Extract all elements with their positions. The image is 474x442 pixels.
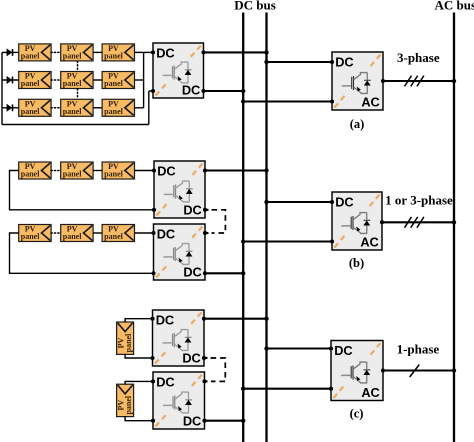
wire stub converter A1 minus input xyxy=(149,90,153,92)
junction inverter B plus xyxy=(264,200,268,204)
svg-text:DC: DC xyxy=(334,343,352,358)
svg-text:DC: DC xyxy=(156,46,174,61)
wire array negative bottom return xyxy=(2,124,149,126)
junction inverter A minus xyxy=(241,99,245,103)
wire DC bus to inverter B plus input xyxy=(267,201,333,203)
wire DC bus to inverter A minus input xyxy=(243,100,332,102)
DC-AC inverter B xyxy=(330,192,384,250)
junction inverter C on AC bus xyxy=(452,368,456,372)
svg-text:DC: DC xyxy=(157,227,175,242)
PV panel b string1 col3 xyxy=(102,162,134,179)
single-phase slash C xyxy=(410,365,420,378)
wire inverter C output to AC bus xyxy=(383,369,454,371)
junction A1 plus on DC bus xyxy=(264,50,268,54)
PV panel b string2 col3 xyxy=(102,225,134,242)
wire row3 left lead xyxy=(2,107,19,109)
wire array negative left drop xyxy=(1,52,3,124)
PV panel c1 xyxy=(117,322,134,354)
three-phase slashes A xyxy=(405,76,424,87)
junction inverter B minus xyxy=(241,239,245,243)
junction inverter C minus xyxy=(241,387,245,391)
svg-text:DC: DC xyxy=(183,413,201,428)
stub C1 output minus xyxy=(204,357,208,359)
svg-text:DC bus: DC bus xyxy=(234,0,276,13)
wire c2 panel plus to converter C2 xyxy=(125,381,153,384)
wire c2 panel minus to converter C2 xyxy=(125,416,153,420)
wire B1 output plus to DC bus xyxy=(205,169,267,171)
wire DC bus to inverter B minus input xyxy=(243,240,332,242)
junction inverter B on AC bus xyxy=(452,220,456,224)
PV panel b string2 col1 xyxy=(19,225,51,242)
PV panel b string1 col1 xyxy=(19,162,51,179)
PV panel a row3 col2 xyxy=(61,99,93,116)
wire c1 panel plus to converter C1 xyxy=(125,319,152,323)
wire A1 output plus to DC bus xyxy=(204,51,267,53)
svg-text:(a): (a) xyxy=(350,117,365,131)
dotted column link rows1-2 xyxy=(77,61,79,71)
dotted series link row2 xyxy=(51,79,61,81)
stub C2 output plus xyxy=(205,380,208,382)
PV panel b string1 col2 xyxy=(61,162,93,179)
PV panel a row2 col1 xyxy=(19,72,51,89)
dashed series link C1-C2 xyxy=(211,358,226,381)
dashed series link B1-B2 xyxy=(212,210,226,233)
wire string collector riser xyxy=(143,52,145,107)
wire b string2 return loop to B2 minus xyxy=(10,233,154,273)
svg-text:AC bus: AC bus xyxy=(435,0,474,13)
wire b string1 return loop to B1 minus xyxy=(10,171,155,210)
DC-AC inverter A xyxy=(330,52,385,110)
blocking diode row3 xyxy=(7,104,13,112)
stub B2 output plus xyxy=(205,232,209,234)
svg-text:DC: DC xyxy=(156,313,174,328)
junction B1 plus on DC bus xyxy=(264,168,268,172)
wire A1 output minus to DC bus xyxy=(204,90,244,92)
junction B2 minus on DC bus xyxy=(241,271,245,275)
junction inverter A plus xyxy=(264,60,268,64)
PV panel a row1 col3 xyxy=(102,44,134,61)
svg-text:DC: DC xyxy=(157,164,175,179)
PV panel b string2 col2 xyxy=(61,225,93,242)
junction C1 plus on DC bus xyxy=(264,317,268,321)
wire row1 output xyxy=(134,51,143,53)
wire c1 panel minus to converter C1 xyxy=(125,354,152,358)
junction A1 minus on DC bus xyxy=(241,89,245,93)
wire DC bus to inverter C plus input xyxy=(267,347,332,349)
DC-DC converter B1 xyxy=(152,161,207,218)
dotted column link rows2-3 xyxy=(77,89,79,99)
dotted series link b string1 xyxy=(51,170,61,172)
PV panel a row1 col1 xyxy=(19,44,51,61)
DC-DC converter C1 xyxy=(150,310,206,366)
PV panel a row2 col2 xyxy=(61,72,93,89)
wire b string1 col2-col3 xyxy=(93,170,102,172)
wire b string2 to converter B2 plus xyxy=(134,232,153,234)
svg-text:AC: AC xyxy=(360,234,378,249)
svg-text:(b): (b) xyxy=(349,256,364,270)
PV panel a row3 col1 xyxy=(19,99,51,116)
svg-text:DC: DC xyxy=(183,264,201,279)
wire row2 output xyxy=(134,79,143,81)
dotted series link row1 xyxy=(51,51,61,53)
wire row3 output xyxy=(134,107,143,109)
blocking diode row2 xyxy=(7,76,13,84)
wire to converter A1 plus input xyxy=(144,51,153,53)
wire riser to converter A1 minus input xyxy=(148,91,150,125)
svg-text:DC: DC xyxy=(182,350,200,365)
wire B2 output minus to DC bus xyxy=(205,272,243,274)
stub B1 output minus xyxy=(205,209,209,211)
wire row2 col2-col3 xyxy=(93,79,102,81)
svg-text:AC: AC xyxy=(361,94,379,109)
wire C2 output minus to DC bus xyxy=(205,420,244,422)
wire C1 output plus to DC bus xyxy=(204,318,267,320)
svg-text:3-phase: 3-phase xyxy=(397,50,440,65)
svg-text:(c): (c) xyxy=(350,406,364,420)
wire row3 col2-col3 xyxy=(93,107,102,109)
junction inverter A on AC bus xyxy=(452,79,456,83)
wire row1 col2-col3 xyxy=(93,51,102,53)
svg-text:DC: DC xyxy=(182,82,200,97)
svg-text:DC: DC xyxy=(335,55,353,70)
wire inverter A output to AC bus xyxy=(383,80,454,82)
wire row1 left lead xyxy=(2,51,19,53)
wire DC bus to inverter A plus input xyxy=(267,61,333,63)
PV panel a row2 col3 xyxy=(102,72,134,89)
DC-DC converter A1 xyxy=(151,43,206,98)
wire DC bus to inverter C minus input xyxy=(243,388,331,390)
phase slashes B xyxy=(405,217,424,228)
DC-AC inverter C xyxy=(329,341,385,401)
AC bus line xyxy=(453,13,455,442)
svg-text:DC: DC xyxy=(335,195,353,210)
PV panel a row1 col2 xyxy=(61,44,93,61)
svg-text:DC: DC xyxy=(156,375,174,390)
wire b string2 col2-col3 xyxy=(93,232,102,234)
junction inverter C plus xyxy=(264,346,268,350)
PV panel c2 xyxy=(117,384,134,416)
svg-text:AC: AC xyxy=(361,385,379,400)
wire row2 left lead xyxy=(2,79,19,81)
dotted series link b string2 xyxy=(51,232,61,234)
DC bus negative line xyxy=(242,13,244,442)
DC bus positive line xyxy=(265,13,267,442)
junction C2 minus on DC bus xyxy=(241,419,245,423)
blocking diode row1 xyxy=(7,48,13,56)
DC-DC converter C2 xyxy=(151,372,207,429)
svg-text:1-phase: 1-phase xyxy=(397,342,440,357)
dotted series link row3 xyxy=(51,107,61,109)
wire b string1 to converter B1 plus xyxy=(134,170,154,172)
wire inverter B output to AC bus xyxy=(382,221,454,223)
svg-text:DC: DC xyxy=(183,202,201,217)
DC-DC converter B2 xyxy=(151,224,207,280)
PV panel a row3 col3 xyxy=(102,99,134,116)
svg-text:1 or 3-phase: 1 or 3-phase xyxy=(385,193,453,208)
